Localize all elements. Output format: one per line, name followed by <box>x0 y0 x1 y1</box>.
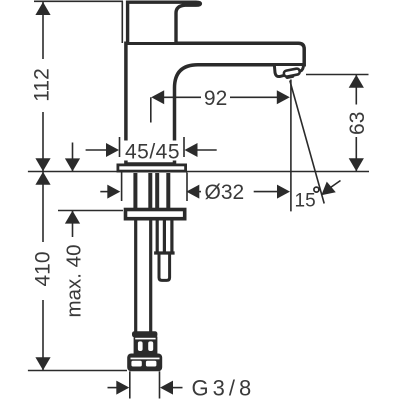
svg-text:45/45: 45/45 <box>125 141 180 164</box>
node G3/8 hose nut <box>127 354 162 372</box>
node dim 15 deg <box>254 80 341 212</box>
wire handle lever <box>128 2 201 42</box>
wire handle left projection line <box>121 1 123 43</box>
node dim 45/45 <box>86 137 217 164</box>
wire top extension line <box>34 0 123 2</box>
wire mounting surface extension line left <box>28 171 117 173</box>
svg-text:112: 112 <box>31 68 54 101</box>
node dim 410 <box>31 172 55 371</box>
svg-text:G3/8: G3/8 <box>192 375 256 400</box>
svg-text:92: 92 <box>204 87 227 110</box>
node dim 63 <box>306 75 369 172</box>
node mounting nut <box>126 210 185 219</box>
node base plate escutcheon <box>118 165 186 171</box>
node hose connector collar <box>132 331 157 337</box>
wire mounting surface extension line right <box>187 171 369 173</box>
wire bottom extension line <box>28 370 127 372</box>
wire shank tube below nut <box>154 220 175 253</box>
wire faucet body outline <box>126 43 304 164</box>
svg-text:max. 40: max. 40 <box>63 245 86 318</box>
svg-text:410: 410 <box>32 251 55 286</box>
node dim G3/8 <box>108 371 256 400</box>
node spout aerator <box>274 65 303 80</box>
svg-text:63: 63 <box>346 112 369 135</box>
wire nut top extension line <box>58 210 123 212</box>
wire pipes between plate and nut <box>135 173 168 209</box>
wire supply hose tube below nut <box>136 220 151 332</box>
svg-text:15: 15 <box>295 191 316 212</box>
node hose crimp block <box>134 336 158 353</box>
node dim 92 <box>151 87 290 123</box>
node dim 112 <box>31 2 54 171</box>
wire shank lower tube <box>159 253 170 280</box>
node dim max 40 <box>63 143 86 318</box>
svg-text:Ø32: Ø32 <box>205 181 245 204</box>
node dim diameter 32 <box>100 173 244 205</box>
